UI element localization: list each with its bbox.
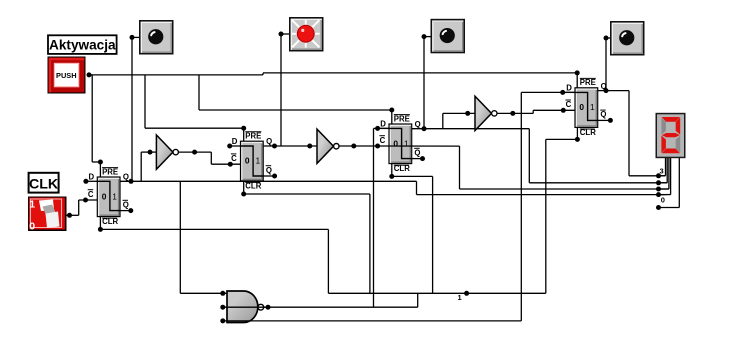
svg-text:D: D — [232, 137, 238, 146]
svg-text:C: C — [88, 190, 94, 199]
svg-text:0: 0 — [393, 138, 398, 148]
svg-text:Q: Q — [123, 173, 129, 182]
svg-text:3: 3 — [660, 167, 664, 176]
svg-text:1: 1 — [112, 191, 117, 201]
svg-text:1: 1 — [256, 156, 261, 166]
svg-text:D: D — [380, 120, 386, 129]
svg-text:0: 0 — [245, 156, 250, 166]
svg-text:Q: Q — [414, 148, 420, 157]
svg-text:1: 1 — [458, 293, 462, 302]
svg-text:D: D — [89, 173, 95, 182]
svg-text:PRE: PRE — [102, 167, 118, 176]
svg-text:Q: Q — [123, 200, 129, 209]
svg-text:Q: Q — [415, 120, 421, 129]
svg-text:D: D — [566, 84, 572, 93]
svg-text:PUSH: PUSH — [56, 71, 77, 80]
svg-text:CLK: CLK — [29, 176, 59, 192]
svg-text:Q: Q — [601, 82, 607, 91]
svg-text:0: 0 — [579, 102, 584, 112]
svg-text:0: 0 — [102, 191, 107, 201]
svg-text:1: 1 — [404, 138, 409, 148]
svg-text:1: 1 — [590, 102, 595, 112]
svg-text:1: 1 — [29, 199, 35, 211]
svg-text:C: C — [380, 136, 386, 145]
svg-text:0: 0 — [29, 221, 35, 233]
svg-text:C: C — [566, 100, 572, 109]
svg-text:Q: Q — [600, 110, 606, 119]
svg-text:PRE: PRE — [394, 114, 410, 123]
svg-text:PRE: PRE — [245, 132, 261, 141]
svg-text:Q: Q — [266, 166, 272, 175]
svg-text:PRE: PRE — [580, 78, 596, 87]
svg-text:C: C — [231, 154, 237, 163]
svg-text:Aktywacja: Aktywacja — [49, 38, 116, 53]
svg-text:0: 0 — [661, 195, 665, 204]
svg-text:Q: Q — [266, 137, 272, 146]
